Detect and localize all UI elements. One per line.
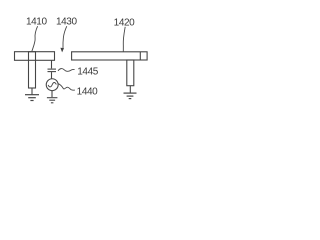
wire source to ground (51, 90, 53, 97)
wire capacitor to source (51, 72, 53, 79)
wire right stem to ground (129, 86, 131, 93)
svg-text:1430: 1430 (56, 16, 77, 27)
svg-text:1445: 1445 (77, 67, 98, 78)
leader squiggle for 1445 (58, 69, 75, 72)
electrode 1410 horizontal bar (15, 52, 55, 61)
sine wave inside source (48, 82, 56, 86)
arrowhead of 1430 pointing to gap (60, 48, 64, 53)
wire stem to ground (31, 88, 33, 94)
divider near right end of bar (139, 52, 141, 60)
electrode 1410 vertical stem (29, 52, 36, 88)
leader squiggle for 1440 (58, 83, 75, 90)
svg-text:1410: 1410 (26, 16, 47, 27)
svg-text:1420: 1420 (114, 17, 135, 28)
capacitor 1445 (48, 69, 57, 72)
ground under left stem (25, 95, 39, 101)
electrode 1420 horizontal bar (72, 52, 148, 60)
ground under AC source (47, 98, 58, 103)
svg-text:1440: 1440 (77, 87, 98, 98)
leader line for 1420 (123, 27, 125, 52)
AC source 1440 circle (46, 79, 58, 91)
leader line for 1430 (63, 26, 67, 48)
ground under right stem (124, 93, 137, 99)
electrode 1420 vertical stem (127, 60, 134, 86)
wire bar to capacitor (51, 60, 53, 68)
leader line for 1410 (32, 26, 38, 51)
